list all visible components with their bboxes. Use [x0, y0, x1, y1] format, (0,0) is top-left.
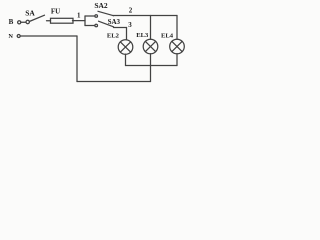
svg-text:SA3: SA3 [108, 18, 121, 26]
svg-text:B: B [9, 18, 14, 26]
svg-text:1: 1 [77, 12, 81, 20]
svg-text:2: 2 [129, 7, 133, 15]
svg-text:EL2: EL2 [107, 33, 120, 40]
svg-text:EL4: EL4 [161, 32, 174, 39]
svg-text:3: 3 [128, 21, 132, 29]
svg-text:EL3: EL3 [136, 32, 149, 39]
svg-text:FU: FU [51, 8, 60, 16]
svg-text:SA2: SA2 [94, 1, 108, 10]
svg-text:SA: SA [25, 9, 35, 18]
svg-text:N: N [8, 33, 13, 40]
